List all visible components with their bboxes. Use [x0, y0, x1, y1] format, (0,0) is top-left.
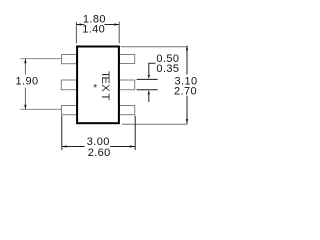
extension line left of dim 3.00/2.60 [61, 116, 63, 150]
leader line to labels 0.50/0.35 [149, 63, 156, 74]
arrow bottom of dim 1.90 [24, 105, 26, 110]
extension line top of dim 1.90 [21, 58, 62, 60]
dimension line 3.00/2.60 left segment [62, 146, 85, 148]
arrow down to pad pin5 top edge [148, 75, 150, 80]
arrow right of dim 3.00/2.60 [130, 145, 135, 147]
pad pin5 (middle-right) [119, 80, 134, 90]
extension line top of dim 3.10/2.70 [121, 46, 188, 48]
svg-text:E: E [99, 76, 111, 83]
pad pin1 (top-left) [62, 55, 77, 64]
arrow top of dim 1.90 [24, 59, 26, 64]
arrow left of dim 3.00/2.60 [62, 145, 67, 147]
arrow top of dim 3.10/2.70 [186, 45, 188, 50]
dimension line 1.80/1.40 right segment [105, 24, 120, 26]
svg-text:X: X [99, 84, 111, 92]
pad pin6 (top-right) [119, 55, 134, 64]
stub below arrow up [148, 95, 150, 103]
extension line top of pad pin5 for dim 0.50/0.35 [137, 78, 158, 80]
extension line right of dim 1.80/1.40 [118, 22, 120, 44]
arrow right of dim 1.80/1.40 [114, 23, 119, 25]
svg-text:*: * [93, 82, 97, 94]
marking TEXT [99, 71, 111, 100]
dimension line 1.90 lower segment [24, 88, 26, 110]
package body [77, 47, 119, 124]
svg-text:2.60: 2.60 [88, 147, 111, 159]
extension line right of dim 3.00/2.60 [134, 116, 136, 150]
dimension line 1.90 upper segment [24, 59, 26, 75]
dimension line 3.00/2.60 right segment [110, 146, 135, 148]
svg-text:1.40: 1.40 [82, 23, 105, 35]
svg-text:0.35: 0.35 [156, 63, 179, 75]
dimension line 3.10/2.70 lower segment [186, 96, 188, 124]
pad pin2 (middle-left) [61, 80, 76, 90]
arrow up to pad pin5 bottom edge [148, 90, 150, 95]
pad pin3 (bottom-left) [62, 106, 77, 115]
extension line bottom of dim 1.90 [21, 108, 62, 110]
dimension line 3.10/2.70 upper segment [186, 46, 188, 75]
arrow left of dim 1.80/1.40 [76, 23, 81, 25]
pad pin4 (bottom-right) [119, 106, 134, 115]
svg-text:1.90: 1.90 [15, 76, 38, 88]
extension line bottom of pad pin5 for dim 0.50/0.35 [137, 89, 158, 91]
extension line bottom of dim 3.10/2.70 [122, 123, 187, 125]
svg-text:2.70: 2.70 [174, 86, 197, 98]
extension line left of dim 1.80/1.40 [75, 22, 77, 44]
svg-text:T: T [99, 93, 111, 100]
dimension line 1.80/1.40 left segment [76, 24, 84, 26]
arrow bottom of dim 3.10/2.70 [186, 119, 188, 124]
